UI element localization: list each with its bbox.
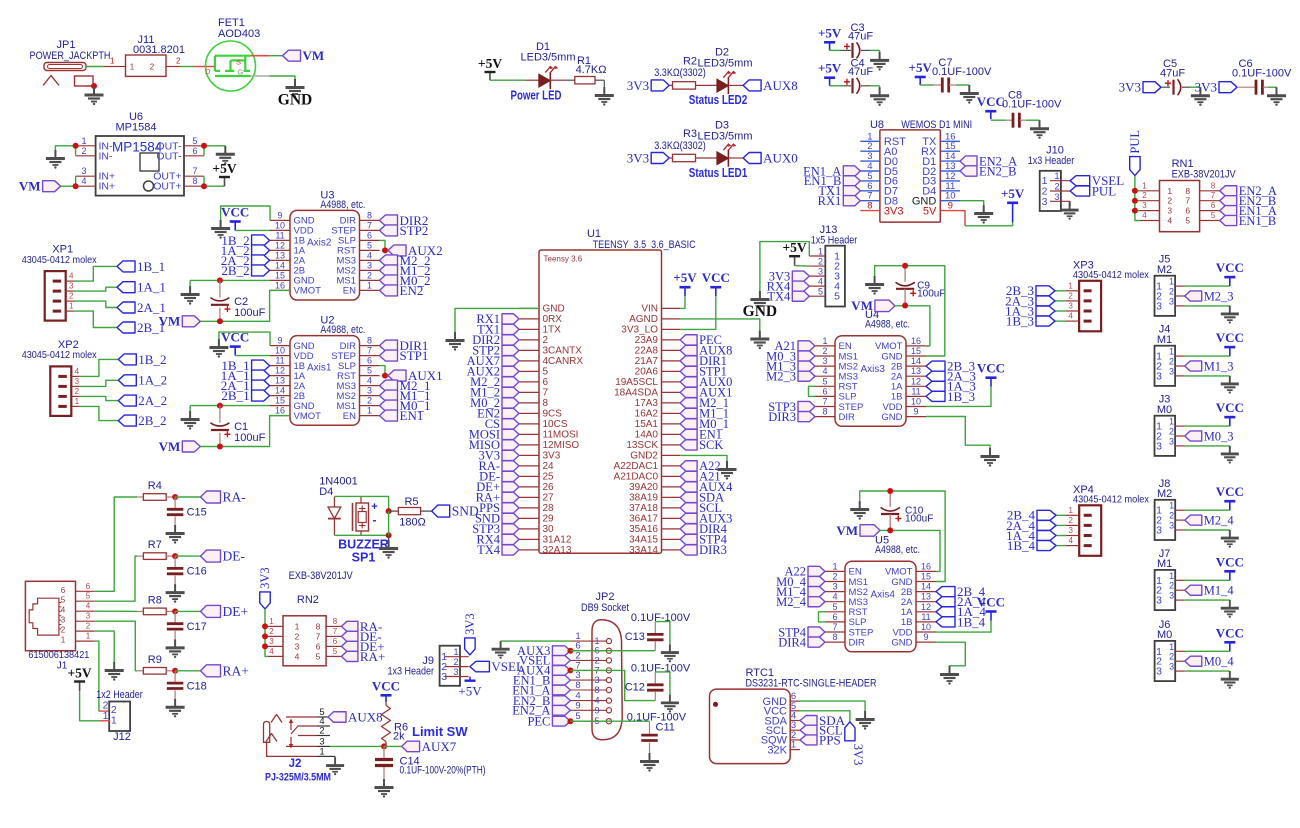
net flag M0_3 at U4 [798,351,815,361]
wire C9 top to U4 GND15 [926,346,945,356]
net flag 2B_4 at XP4 [1037,510,1056,520]
svg-text:+5V: +5V [478,56,502,71]
svg-text:3V3: 3V3 [1195,80,1217,95]
svg-text:8: 8 [316,621,321,631]
junction JP2 pin5 [567,718,573,724]
pin 3 of U3 [360,269,380,271]
junction C9 top [902,263,908,269]
svg-text:9: 9 [948,201,953,212]
pin 1 of J12 [100,720,111,722]
pin 8 of U6 [184,185,204,187]
svg-text:32A13: 32A13 [543,545,572,556]
net flag M0_3 at J3 [1185,431,1202,441]
pin 1 of U3 [360,289,380,291]
wire J8 pin3 to ground [1185,529,1230,531]
pin 6 of U4 [815,395,835,397]
svg-text:4: 4 [1167,216,1172,226]
svg-text:M2_4: M2_4 [776,595,807,609]
pin 22A8 of U1 [662,349,681,351]
svg-text:5: 5 [834,291,840,303]
capacitor C16 [174,556,176,567]
svg-text:AUX8: AUX8 [348,709,383,724]
svg-text:0031.8201: 0031.8201 [133,44,185,56]
wire C7 to ground [949,84,956,86]
net flag DE- at U1 left [502,471,519,481]
svg-text:28: 28 [543,503,555,514]
pin 2 of U1 [519,339,539,341]
net flag AUX7 at U1 left [502,356,519,366]
wire U2 GND pin9 to ground [219,332,270,346]
svg-text:GND: GND [891,637,912,648]
svg-text:STP2: STP2 [400,223,429,238]
junction U3 RST [382,247,388,253]
net flag M1_2 at U3 [380,265,398,276]
wire J5 pin1 to VCC [1185,285,1230,287]
junction R5 left [386,508,392,514]
wire J3 pin3 to ground [1185,445,1230,447]
net flag DIR1 at U2 [380,340,398,351]
junction C10 top [887,488,893,494]
svg-text:1: 1 [86,632,91,641]
svg-text:1: 1 [1169,642,1174,652]
svg-text:8: 8 [832,632,837,642]
svg-text:10: 10 [921,622,931,632]
wire VCC to U4 VDD [926,387,991,407]
net flag M0_4 at J6 [1185,656,1202,666]
net flag 2B_4 at U5 [936,587,955,597]
net flag DIR2 at U1 left [502,335,519,345]
net flag VSEL at JP2 [552,656,570,666]
pin 2 of J1 [76,630,95,632]
pin 6 of RN1 [1200,210,1220,212]
pin 3 of U8 [860,160,880,162]
pin 32A13 of U1 [519,549,539,551]
pin 16A2 of U1 [662,412,681,414]
svg-text:4: 4 [832,592,837,602]
svg-text:1B_4: 1B_4 [1007,538,1036,553]
power flag +5V at C4 [829,78,831,86]
pin 11 of U4 [906,395,926,397]
svg-text:+5V: +5V [458,684,482,699]
svg-text:26: 26 [543,482,555,493]
wire XP4 pin1 [1056,514,1066,516]
net flag 1B_1 at U2 [252,360,270,371]
svg-text:PUL: PUL [1092,183,1117,198]
svg-text:8: 8 [594,685,599,696]
svg-text:0.1UF-100V: 0.1UF-100V [1232,68,1292,80]
power flag VCC at J6 [1229,642,1231,651]
svg-text:4: 4 [818,277,823,287]
svg-text:43045-0412 molex: 43045-0412 molex [1073,494,1149,505]
svg-text:M0_3: M0_3 [1204,429,1234,443]
pin 6 of U8 [860,190,880,192]
wire J1 pin6 to R4 [95,497,137,591]
capacitor C18 [174,671,176,682]
pin 8 of U2 [360,345,380,347]
svg-text:LED3/5mm: LED3/5mm [520,52,575,64]
net flag 3V3 at D3 [651,153,669,164]
wire C5 to ground [1182,86,1190,88]
svg-text:M0_4: M0_4 [1204,654,1235,668]
ground C7 [968,85,970,93]
ground U1 AGND [759,331,761,339]
pin 2 of J6 [1175,660,1185,662]
svg-text:3: 3 [86,612,91,621]
net flag DE- at RN2 [341,631,358,641]
pin 8 of U8 [860,210,880,212]
pin 3 of JP2 [570,679,606,681]
wire J2 pin1 to ground [330,755,335,757]
svg-text:R5: R5 [404,496,418,508]
pin 14 of U3 [270,269,290,271]
svg-text:13: 13 [911,366,921,376]
power flag +5V at C3 [829,42,831,50]
svg-text:2: 2 [543,335,549,346]
pin 10 of U5 [916,631,936,633]
wire D1 to R1 [550,79,565,81]
pin 1 of U2 [360,415,380,417]
svg-text:10: 10 [911,397,921,407]
svg-text:2: 2 [1169,581,1174,591]
pin 2 of RTC1 [790,739,800,741]
svg-text:VCC: VCC [702,270,730,285]
svg-text:6: 6 [543,377,549,388]
svg-text:15: 15 [921,572,931,582]
svg-text:1: 1 [295,621,300,631]
svg-text:8: 8 [543,398,549,409]
net flag 1B_4 at U5 [936,617,955,627]
svg-text:2: 2 [75,387,80,396]
net flag AUX0 at U1 right [680,377,697,387]
net flag M2_2 at U3 [380,255,398,266]
svg-text:15A1: 15A1 [635,419,659,430]
net flag SCL at U1 right [680,503,697,513]
net flag RA+ at RN2 [341,651,358,661]
wire U8 GND to ground [960,201,984,206]
pin 14 of U2 [270,395,290,397]
pin 3 of U5 [825,591,845,593]
junction R7 [172,553,178,559]
pin 9 of U8 [940,210,960,212]
net flag RA- [201,491,221,503]
svg-text:2: 2 [822,346,827,356]
svg-text:4: 4 [61,606,66,615]
wire U5 GND9 to ground [936,642,965,667]
svg-text:GND: GND [881,412,902,423]
net flag M0_1 at U2 [380,400,398,411]
pin 3 of J4 [1175,375,1185,377]
svg-text:3: 3 [1169,436,1174,446]
pin 15 of U5 [916,581,936,583]
wire J1 pin2 to ground [95,631,115,662]
ground U1 GND [454,332,456,340]
net flag AUX2 at U3 [388,245,406,256]
pin 13 of U8 [940,170,960,172]
net flag 3V3 at J13 [792,271,809,281]
svg-text:2k: 2k [393,731,405,743]
net flag PEC at U1 right [680,335,697,345]
pin 3 of J3 [1175,445,1185,447]
svg-text:1: 1 [1068,281,1073,290]
pin 5 of U1 [519,370,539,372]
pin 36A17 of U1 [662,517,681,519]
svg-text:7: 7 [333,627,338,636]
net flag EN2_B at U8 [960,166,977,176]
pin 35A16 of U1 [662,528,681,530]
pin 2 of U8 [860,150,880,152]
net flag AUX8 at D2 [743,80,761,91]
svg-text:1: 1 [130,63,135,72]
pin 6 of JP2 [570,650,606,652]
pin 4 of J1 [76,610,95,612]
net flag STP2 at U1 left [502,345,519,355]
net flag DIR3 at U1 right [680,545,697,555]
pin 5 of RTC1 [790,710,800,712]
junction R9 [172,668,178,674]
svg-text:16: 16 [921,561,931,571]
svg-text:R9: R9 [148,654,162,666]
net flag EN2_A at U8 [960,156,977,166]
svg-text:VCC: VCC [977,94,1005,109]
svg-text:R3: R3 [683,128,697,140]
pin 1 of J5 [1175,285,1185,287]
net flag SND at U1 left [502,513,519,523]
wire FET1 source to ground [250,75,269,77]
wire XP2 pin2 to 2A_2 [80,396,119,400]
junction U6 pin1 [73,143,79,149]
svg-text:4: 4 [269,647,274,656]
net flag AUX1 at U1 right [680,387,697,397]
pin 3 of RN1 [1139,210,1159,212]
net flag TX1 at U8 [843,186,860,196]
svg-text:5: 5 [316,651,321,661]
ground C17 [174,639,176,647]
svg-text:9: 9 [923,632,928,642]
junction JP2 pin6 [567,648,573,654]
net flag EN1_B at JP2 [552,675,570,685]
net flag M2_4 at U5 [808,597,825,607]
svg-text:14: 14 [275,386,285,396]
wire C3 to ground [861,49,871,51]
svg-text:1: 1 [367,406,372,416]
pin 5 of JP2 [570,720,606,722]
svg-text:2: 2 [1169,652,1174,662]
svg-text:VCC: VCC [372,678,400,693]
svg-text:13: 13 [275,376,285,386]
svg-text:38A19: 38A19 [629,493,658,504]
pin 1 of J1 [76,640,95,642]
svg-text:4: 4 [1142,211,1147,220]
wire JP2 pin6 to C13 [570,650,655,652]
wire JP1 sleeve to ground [86,85,94,87]
junction RN2 pin3 [262,643,268,649]
svg-text:+5V: +5V [1001,186,1025,201]
svg-text:6: 6 [316,641,321,651]
capacitor C15 [174,497,176,508]
pin 1 of XP4 [1066,514,1079,516]
svg-text:11MOSI: 11MOSI [543,430,579,441]
ground C12 [669,695,671,703]
power flag +5V at C7 [919,77,921,85]
svg-text:3: 3 [1167,206,1172,216]
svg-text:14A0: 14A0 [635,430,659,441]
pin 6 of U5 [825,621,845,623]
svg-text:VM: VM [19,179,41,194]
net flag EN2 at U3 [380,285,398,296]
pin 12 of U4 [906,385,926,387]
buzzer SP1 [360,496,362,503]
pin 5 of U5 [825,611,845,613]
net flag AUX3 at JP2 [552,646,570,656]
pin 2 of J3 [1175,435,1185,437]
svg-text:VM: VM [851,298,873,313]
svg-text:VM: VM [303,48,325,63]
svg-text:SND: SND [452,504,479,519]
wire J7 pin3 to ground [1185,599,1230,601]
net flag DIR4 at U5 [808,637,825,647]
wire J2 pin3 to AUX7 [330,745,384,747]
wire +5V to C3 [830,49,841,51]
wire VM to U2 VMOT [200,416,290,447]
svg-text:1: 1 [1169,417,1174,427]
pin 12 of U3 [270,249,290,251]
svg-text:3: 3 [441,671,447,683]
wire RTC1 VCC to 3V3 [800,711,850,722]
svg-text:RA-: RA- [223,490,247,505]
pin 4 of RN2 [268,655,283,657]
net flag RX4 at J13 [792,281,809,291]
svg-text:6: 6 [822,386,827,396]
pin 1 of J13 [809,255,825,257]
wire buzzer top [360,495,362,497]
svg-text:Status LED1: Status LED1 [689,165,748,180]
pin A22DAC1 of U1 [662,465,681,467]
svg-text:8: 8 [575,680,580,691]
wire VCC to U3 VDD [235,229,270,231]
svg-text:3: 3 [832,582,837,592]
wire XP4 pin2 [1056,524,1066,526]
net flag M2_3 at J5 [1185,291,1202,301]
svg-text:3V3: 3V3 [1119,80,1141,95]
svg-text:RN2: RN2 [297,594,319,606]
wire R1 to ground [595,79,604,81]
svg-text:1: 1 [69,302,74,311]
svg-text:2: 2 [1169,287,1174,297]
svg-text:2: 2 [295,631,300,641]
wire C10 top rail [860,491,945,582]
net flag STP2 at U3 [380,225,398,236]
pin 4 of U4 [815,375,835,377]
power flag VCC at J3 [1229,417,1231,426]
svg-text:DE+: DE+ [223,604,249,619]
svg-text:4.7KΩ: 4.7KΩ [576,64,607,76]
svg-text:TEENSY_3.5_3.6_BASIC: TEENSY_3.5_3.6_BASIC [593,239,696,251]
svg-text:Power LED: Power LED [511,88,562,103]
pin 4 of RN1 [1139,220,1159,222]
svg-text:0RX: 0RX [543,314,563,325]
svg-text:1B_2: 1B_2 [138,352,166,367]
svg-text:33A14: 33A14 [629,545,658,556]
power flag +5V at U6 output [224,177,226,186]
net flag DE- [201,550,221,562]
svg-text:DS3231-RTC-SINGLE-HEADER: DS3231-RTC-SINGLE-HEADER [746,678,877,690]
svg-text:Axis3: Axis3 [861,364,886,375]
pin 6 of U3 [360,239,380,241]
pin 1 of U8 [860,140,880,142]
svg-text:34A15: 34A15 [629,535,658,546]
svg-text:M0: M0 [1157,629,1172,641]
svg-text:9: 9 [575,700,580,711]
wire J6 pin3 to ground [1185,670,1230,672]
svg-text:2: 2 [176,57,181,66]
svg-text:2: 2 [69,292,74,301]
wire D2 to AUX8 [728,84,743,86]
svg-text:21A7: 21A7 [635,356,659,367]
svg-text:6: 6 [86,582,91,591]
pin 31A12 of U1 [519,538,539,540]
net flag M0_2 at U3 [380,275,398,286]
pin 2 of XP2 [71,395,79,397]
net flag CS at U1 left [502,419,519,429]
net flag PUL at J10 [1070,186,1090,196]
wire J4 pin3 to ground [1185,375,1230,377]
svg-text:47uF: 47uF [1160,68,1185,80]
net flag 1A_2 at XP2 [118,375,136,386]
svg-text:2: 2 [453,657,458,667]
wire U3 GND pin15 rail [190,279,270,281]
svg-text:3: 3 [1068,526,1073,535]
pin GND2 of U1 [662,454,681,456]
svg-text:11: 11 [275,356,284,366]
pin 2 of XP3 [1066,300,1079,302]
svg-text:D4: D4 [319,486,333,498]
net flag 1A_1 at U2 [252,370,270,381]
wire C8 to ground [1020,119,1026,121]
wire 3V3 to C6 [1237,86,1255,88]
pin 2 of RN1 [1139,200,1159,202]
ground J7 [1229,600,1231,608]
svg-text:0.1UF-100V-20%(PTH): 0.1UF-100V-20%(PTH) [400,765,486,777]
net flag 1B_1 at XP1 [117,261,135,272]
net flag PPS at U1 left [502,503,519,513]
svg-text:S: S [236,58,241,67]
net flag DIR3 at U4 [798,412,815,422]
svg-text:5: 5 [333,647,338,656]
svg-text:5: 5 [192,136,197,146]
svg-text:2A_1: 2A_1 [137,300,166,315]
pin 4 of J13 [809,285,825,287]
svg-text:8: 8 [333,617,338,626]
svg-text:6: 6 [367,356,372,366]
wire J4 pin1 to VCC [1185,355,1230,357]
svg-text:8: 8 [367,210,372,220]
wire J1 pin3 to R9 [95,621,137,671]
svg-text:3V3: 3V3 [851,744,865,766]
svg-text:1: 1 [1054,171,1059,181]
svg-text:4CANRX: 4CANRX [543,356,584,367]
pin 3 of U4 [815,365,835,367]
svg-text:22A8: 22A8 [635,346,659,357]
svg-text:1A_1: 1A_1 [137,280,166,295]
svg-text:M1_4: M1_4 [1204,583,1235,597]
wire 3V3 to C5 [1161,86,1170,88]
svg-text:11: 11 [275,230,284,240]
net flag RA+ at U1 left [502,492,519,502]
wire JP1 to J11 [86,66,104,68]
ground C15 [174,525,176,533]
net flag 3V3 vertical at RTC1 [845,722,855,741]
wire U3 GND pin9 to ground [221,206,270,221]
